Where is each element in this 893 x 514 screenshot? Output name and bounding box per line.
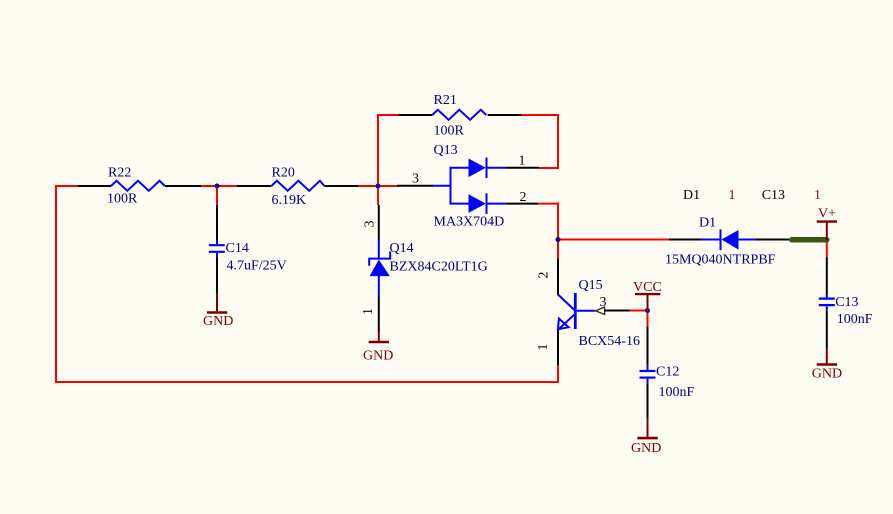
wire left top segment bbox=[56, 185, 78, 187]
wire R21 right horizontal bbox=[522, 114, 559, 116]
wire bottom right riser to Q15 emitter bbox=[557, 364, 559, 383]
wire V+ node down to C13 bbox=[826, 240, 828, 258]
wire R22 to R20 through node bbox=[201, 185, 237, 187]
wire Q13 pin1 stub bbox=[539, 167, 559, 169]
svg-text:100R: 100R bbox=[434, 124, 465, 139]
pin 3 arrow on base bbox=[595, 307, 604, 314]
wire Q13 pin2 down to node C bbox=[557, 203, 559, 259]
svg-text:4.7uF/25V: 4.7uF/25V bbox=[227, 259, 287, 274]
power port VCC bbox=[647, 294, 649, 311]
thick olive wire segment (bead) bbox=[789, 237, 830, 243]
resistor R21 bbox=[398, 114, 522, 116]
svg-text:GND: GND bbox=[203, 314, 233, 329]
node B junction bbox=[376, 184, 381, 189]
svg-text:15MQ040NTRPBF: 15MQ040NTRPBF bbox=[665, 252, 776, 267]
svg-text:GND: GND bbox=[812, 366, 842, 381]
svg-text:GND: GND bbox=[363, 348, 393, 363]
svg-text:V+: V+ bbox=[818, 206, 836, 221]
wire R20 right to node B bbox=[358, 185, 397, 187]
wire Q13 pin2 stub bbox=[538, 203, 559, 205]
svg-text:C13: C13 bbox=[762, 188, 785, 203]
wire R21 right riser to Q13 pin1 bbox=[557, 114, 559, 169]
svg-text:1: 1 bbox=[814, 188, 821, 203]
ground GND at Q14 bbox=[378, 331, 380, 342]
node VCC junction bbox=[645, 308, 650, 313]
svg-text:VCC: VCC bbox=[633, 280, 662, 295]
ground GND at C14 bbox=[216, 293, 218, 313]
svg-text:2: 2 bbox=[537, 272, 552, 279]
svg-text:GND: GND bbox=[631, 441, 661, 456]
svg-text:1: 1 bbox=[729, 188, 736, 203]
svg-text:C14: C14 bbox=[226, 241, 249, 256]
svg-text:R22: R22 bbox=[108, 166, 131, 181]
svg-text:3: 3 bbox=[600, 295, 607, 310]
svg-text:C13: C13 bbox=[835, 295, 858, 310]
svg-text:100nF: 100nF bbox=[659, 385, 695, 400]
svg-text:R20: R20 bbox=[272, 166, 295, 181]
svg-text:3: 3 bbox=[412, 172, 419, 187]
svg-text:C12: C12 bbox=[656, 364, 679, 379]
svg-text:1: 1 bbox=[361, 308, 376, 315]
ground GND at C13 bbox=[826, 348, 828, 365]
diode D1 bbox=[669, 239, 701, 241]
svg-text:Q15: Q15 bbox=[579, 278, 603, 293]
svg-text:6.19K: 6.19K bbox=[272, 193, 307, 208]
svg-text:2: 2 bbox=[520, 190, 527, 205]
wire left vertical bbox=[55, 185, 57, 383]
node C junction bbox=[556, 237, 561, 242]
wire node C to D1 bbox=[558, 239, 669, 241]
svg-text:MA3X704D: MA3X704D bbox=[434, 215, 505, 230]
wire Q15 base to VCC node bbox=[630, 310, 649, 312]
svg-text:R21: R21 bbox=[434, 93, 457, 108]
svg-text:100nF: 100nF bbox=[837, 312, 873, 327]
svg-text:BZX84C20LT1G: BZX84C20LT1G bbox=[390, 259, 488, 274]
wire R21 left riser bbox=[377, 114, 379, 205]
ground GND at C12 bbox=[647, 418, 649, 438]
wire VCC node down to C12 bbox=[647, 311, 649, 327]
wire bottom horizontal bbox=[55, 381, 559, 383]
resistor R22 bbox=[78, 185, 201, 187]
capacitor C12 bbox=[647, 326, 649, 364]
resistor R20 bbox=[237, 185, 358, 187]
wire node A down to C14 bbox=[216, 186, 218, 205]
svg-text:BCX54-16: BCX54-16 bbox=[579, 334, 640, 349]
svg-text:Q13: Q13 bbox=[434, 143, 458, 158]
svg-text:100R: 100R bbox=[107, 192, 138, 207]
wire R21 left horizontal bbox=[377, 114, 398, 116]
svg-text:1: 1 bbox=[519, 153, 526, 168]
capacitor C14 bbox=[216, 205, 218, 240]
node A junction bbox=[215, 184, 220, 189]
svg-text:1: 1 bbox=[536, 344, 551, 351]
svg-text:3: 3 bbox=[363, 221, 378, 228]
power port V+ bbox=[826, 222, 828, 240]
svg-text:Q14: Q14 bbox=[390, 241, 414, 256]
transistor Q15 bbox=[557, 259, 559, 295]
dual diode Q13 bbox=[397, 185, 433, 187]
svg-text:D1: D1 bbox=[699, 216, 716, 231]
capacitor C13 bbox=[826, 258, 828, 295]
zener diode Q14 bbox=[378, 205, 380, 240]
svg-text:D1: D1 bbox=[683, 188, 700, 203]
